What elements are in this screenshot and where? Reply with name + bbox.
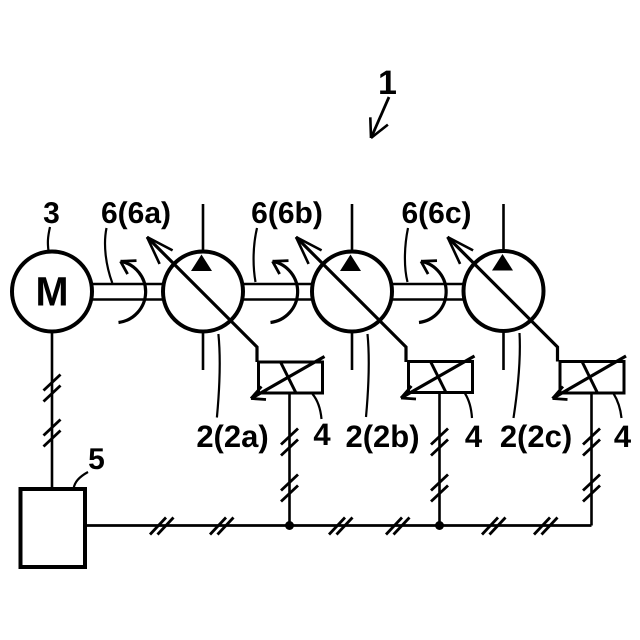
wire signal line valve 4a to bus: [288, 393, 291, 526]
signal line hash marks on motor wire: [44, 375, 61, 447]
leader line for label 5: [74, 472, 89, 489]
signal line hash marks on valve 4c wire: [583, 429, 600, 502]
control valve 4b: [401, 356, 475, 399]
pump 2b bottom port line: [351, 331, 354, 370]
wire shaft motor to pump 2a: [90, 284, 165, 300]
leader line for label 6(6a): [105, 228, 112, 283]
signal line hash marks on bus: [150, 518, 558, 535]
leader line for label 2(2b): [366, 334, 369, 417]
rotation arrow 6a: [119, 261, 146, 323]
wire shaft pump 2a to pump 2b: [241, 284, 314, 300]
wire shaft pump 2b to pump 2c: [390, 284, 466, 300]
pump 2b displacement arrow: [296, 237, 406, 362]
leader line for label 6(6b): [254, 228, 257, 282]
wire signal bus from controller 5: [85, 524, 592, 527]
motor M: [12, 252, 92, 332]
wire signal line valve 4c to bus: [590, 393, 593, 526]
pump 2b top port line: [351, 204, 354, 252]
signal line hash marks on valve 4a wire: [281, 429, 298, 502]
leader arrow for label 1: [370, 97, 389, 138]
svg-text:4: 4: [313, 417, 331, 452]
svg-text:M: M: [36, 269, 69, 315]
svg-text:2(2c): 2(2c): [500, 419, 572, 454]
pump 2a bottom port line: [202, 331, 205, 370]
rotation arrow 6b: [271, 261, 298, 323]
pump 2a circle: [163, 252, 243, 332]
leader line for label 4b: [465, 394, 472, 419]
pump 2a displacement arrow: [147, 237, 257, 362]
controller box 5: [21, 489, 86, 567]
wire signal line valve 4b to bus: [438, 393, 441, 526]
svg-text:6(6b): 6(6b): [251, 197, 323, 230]
wire signal line motor to controller 5: [51, 331, 54, 489]
leader line for label 2(2a): [217, 334, 220, 418]
svg-text:4: 4: [614, 419, 632, 454]
pump 2c bottom port line: [502, 331, 505, 371]
pump 2a triangle: [191, 255, 212, 272]
leader line for label 6(6c): [405, 228, 408, 282]
rotation arrow 6c: [419, 261, 446, 323]
leader line for label 2(2c): [514, 333, 520, 418]
pump 2b triangle: [340, 255, 361, 272]
pump 2b circle: [312, 252, 392, 332]
svg-text:2(2a): 2(2a): [196, 419, 268, 454]
svg-text:2(2b): 2(2b): [345, 419, 419, 454]
junction dot at valve 4a wire: [285, 521, 294, 530]
control valve 4c: [553, 356, 627, 400]
svg-text:6(6a): 6(6a): [101, 197, 171, 230]
control valve 4a: [251, 357, 325, 400]
signal line hash marks on valve 4b wire: [431, 429, 448, 502]
pump 2c displacement arrow: [448, 237, 558, 362]
svg-text:4: 4: [465, 419, 483, 454]
leader line for label 4c: [614, 394, 622, 419]
svg-text:1: 1: [378, 64, 397, 102]
svg-text:6(6c): 6(6c): [401, 197, 471, 230]
leader line for label 3: [48, 227, 50, 251]
pump 2a top port line: [202, 204, 205, 252]
svg-text:3: 3: [43, 197, 60, 230]
pump 2c triangle: [492, 254, 513, 271]
svg-text:5: 5: [88, 443, 105, 476]
leader line for label 4a: [313, 394, 322, 419]
junction dot at valve 4b wire: [435, 521, 444, 530]
pump 2c top port line: [502, 204, 505, 252]
pump 2c circle: [464, 251, 544, 331]
